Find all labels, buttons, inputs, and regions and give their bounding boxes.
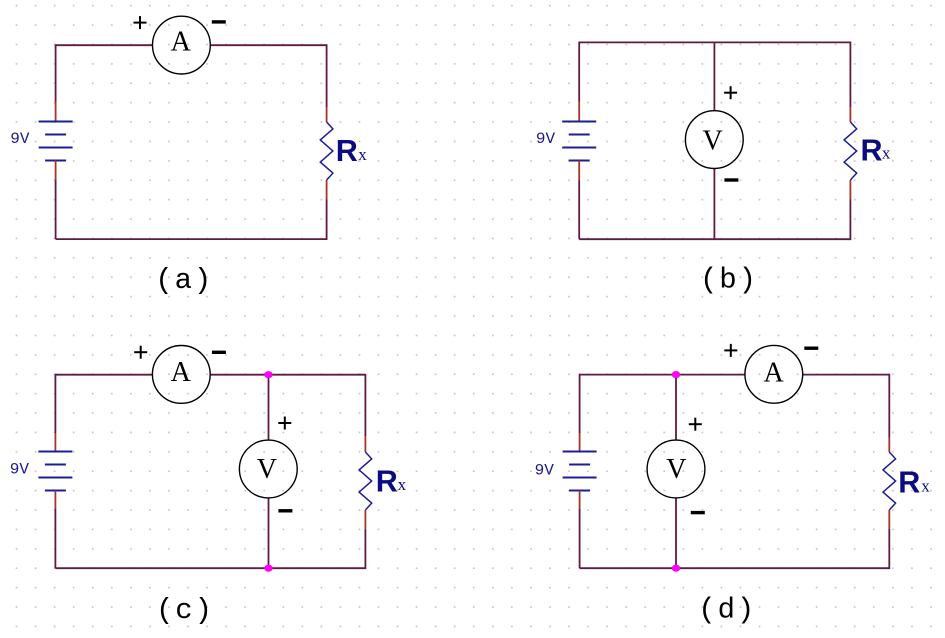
wire top-left from corner to ammeter (c) — [55, 374, 152, 376]
wire red lead resistor top (d) — [888, 438, 890, 453]
svg-text:x: x — [921, 476, 930, 495]
wire right lower (c) — [364, 530, 366, 570]
minus sign voltmeter (b) — [724, 178, 738, 181]
wire red lead resistor top (b) — [849, 107, 851, 122]
svg-text:R: R — [336, 134, 358, 168]
wire red lead battery bottom (d) — [579, 491, 581, 510]
svg-text:): ) — [737, 594, 754, 627]
wire middle branch upper (b) — [713, 42, 715, 110]
junction dot top (d) — [672, 371, 680, 378]
wire left upper — [578, 42, 580, 102]
voltmeter V (c) — [239, 440, 297, 498]
svg-text:V: V — [702, 125, 722, 156]
svg-text:): ) — [194, 264, 211, 297]
minus sign ammeter (d) — [804, 347, 818, 350]
wire top — [579, 41, 850, 43]
svg-text:(: ( — [700, 264, 717, 297]
wire bottom — [56, 238, 327, 240]
svg-text:R: R — [898, 466, 920, 500]
wire bottom (c) — [55, 567, 365, 569]
wire right lower — [326, 200, 328, 241]
caption (a) — [155, 264, 211, 297]
svg-text:(: ( — [156, 594, 173, 627]
svg-text:a: a — [175, 264, 192, 297]
svg-text:9V: 9V — [536, 130, 556, 148]
svg-text:c: c — [175, 594, 192, 627]
caption (c) — [156, 594, 212, 627]
svg-text:V: V — [257, 454, 277, 485]
wire red lead battery bottom — [55, 161, 57, 181]
wire middle branch upper (c) — [268, 375, 270, 441]
wire top-right from ammeter to corner (d) — [803, 374, 890, 376]
plus sign voltmeter (b) — [724, 86, 737, 99]
svg-text:x: x — [398, 475, 407, 494]
wire right lower (b) — [849, 200, 851, 241]
svg-text:9V: 9V — [10, 130, 30, 148]
ammeter A — [153, 16, 211, 74]
plus sign ammeter (c) — [134, 346, 147, 359]
wire left upper (c) — [54, 374, 56, 433]
plus sign ammeter (a) — [134, 16, 147, 29]
wire right lower (d) — [888, 529, 890, 569]
wire top-left from corner to ammeter (d) — [580, 374, 745, 376]
junction dot bottom (d) — [672, 565, 680, 572]
svg-text:9V: 9V — [10, 461, 30, 479]
svg-text:A: A — [171, 357, 192, 388]
minus sign voltmeter (d) — [691, 511, 705, 514]
wire red lead battery bottom (b) — [578, 161, 580, 181]
svg-text:): ) — [195, 594, 212, 627]
wire middle branch lower (b) — [713, 169, 715, 240]
svg-text:R: R — [861, 134, 883, 168]
wire red lead battery top (c) — [54, 433, 56, 452]
minus sign ammeter (c) — [212, 351, 226, 354]
voltmeter V (d) — [647, 440, 705, 498]
caption (d) — [698, 594, 754, 627]
wire right upper (d) — [888, 374, 890, 438]
battery 9V (c) — [38, 452, 72, 491]
wire top-right from ammeter to corner — [210, 44, 326, 46]
minus sign ammeter (a) — [212, 20, 226, 23]
caption (b) — [700, 264, 756, 297]
svg-text:A: A — [763, 358, 784, 389]
battery 9V (b) — [562, 122, 596, 161]
minus sign voltmeter (c) — [278, 509, 292, 512]
svg-text:9V: 9V — [535, 462, 555, 480]
wire top-right from ammeter to right corner (c) — [210, 374, 365, 376]
wire right upper (b) — [849, 42, 851, 108]
wire red lead battery top (d) — [579, 433, 581, 452]
ammeter A (c) — [152, 346, 210, 404]
svg-text:R: R — [376, 464, 398, 498]
battery 9V (d) — [563, 452, 597, 491]
plus sign ammeter (d) — [724, 344, 737, 357]
wire top-left from corner to ammeter — [56, 44, 153, 46]
resistor Rx zigzag — [320, 122, 333, 180]
wire left lower — [55, 181, 57, 240]
svg-text:(: ( — [155, 264, 172, 297]
wire red lead resistor top (c) — [364, 436, 366, 452]
junction dot bottom (c) — [264, 565, 272, 572]
resistor Rx zigzag (b) — [844, 122, 857, 180]
svg-text:): ) — [739, 264, 756, 297]
wire bottom (d) — [580, 567, 890, 569]
ammeter A (d) — [745, 345, 803, 403]
wire red lead battery top — [55, 102, 57, 122]
wire left lower (c) — [54, 509, 56, 568]
wire right upper (c) — [364, 374, 366, 436]
resistor Rx zigzag (c) — [359, 452, 372, 510]
svg-text:V: V — [666, 454, 686, 485]
wire red lead resistor top — [326, 107, 328, 122]
wire red lead resistor bottom (d) — [888, 510, 890, 529]
wire middle branch lower (c) — [268, 498, 270, 568]
wire middle branch upper (d) — [675, 375, 677, 441]
svg-text:x: x — [358, 145, 367, 164]
junction dot top (c) — [264, 371, 272, 378]
wire bottom (b) — [579, 238, 850, 240]
svg-text:(: ( — [698, 594, 715, 627]
wire middle branch lower (d) — [675, 498, 677, 568]
wire left upper — [55, 44, 57, 101]
plus sign voltmeter (c) — [278, 417, 291, 430]
battery 9V (a) — [39, 122, 73, 161]
svg-text:x: x — [882, 143, 891, 162]
svg-text:b: b — [719, 264, 736, 297]
wire red lead resistor bottom (b) — [849, 180, 851, 200]
wire red lead resistor bottom (c) — [364, 510, 366, 530]
wire left lower (d) — [579, 509, 581, 568]
plus sign voltmeter (d) — [689, 418, 702, 431]
wire red lead resistor bottom — [326, 180, 328, 200]
svg-text:A: A — [171, 26, 192, 57]
wire red lead battery top (b) — [578, 102, 580, 122]
wire right upper — [326, 44, 328, 107]
svg-text:d: d — [718, 594, 735, 627]
wire red lead battery bottom (c) — [54, 491, 56, 510]
voltmeter V (b) — [685, 111, 743, 169]
wire left lower (b) — [578, 181, 580, 240]
wire left upper (d) — [579, 374, 581, 433]
resistor Rx zigzag (d) — [883, 452, 896, 510]
